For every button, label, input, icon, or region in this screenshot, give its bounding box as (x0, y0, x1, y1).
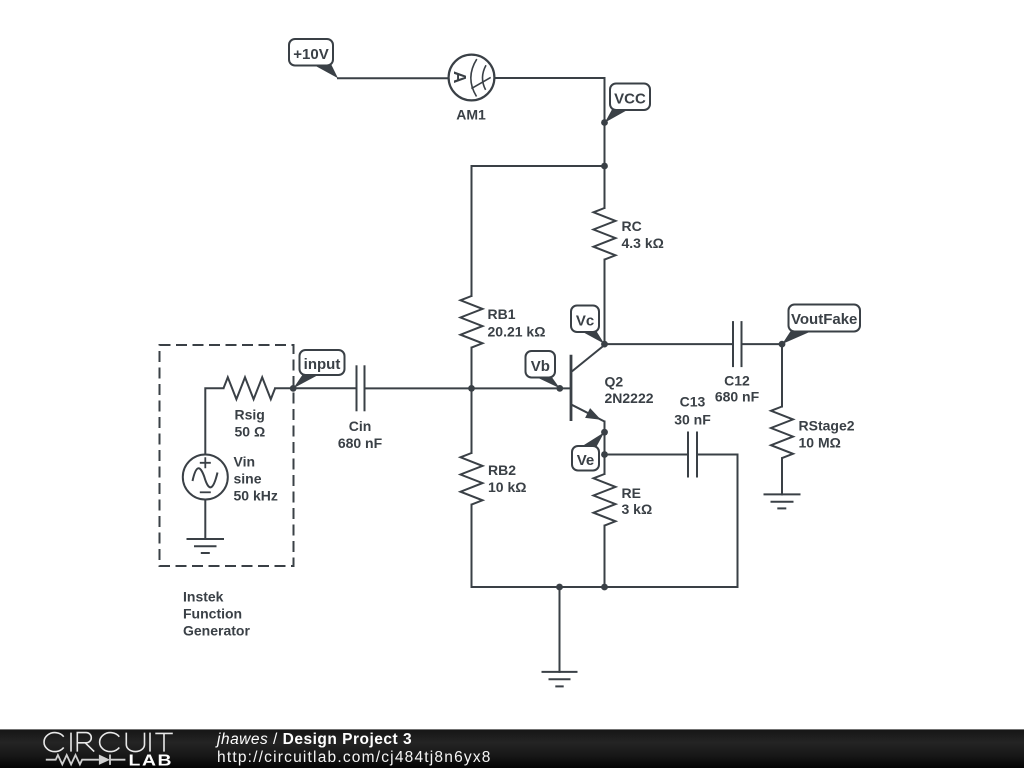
capacitor C13 (688, 432, 697, 478)
svg-text:4.3 kΩ: 4.3 kΩ (622, 235, 664, 251)
wire Ve node to C13 left plate (605, 454, 689, 456)
svg-text:680 nF: 680 nF (715, 389, 760, 405)
svg-text:30 nF: 30 nF (674, 412, 711, 428)
wire Vc node to C12 left plate (605, 343, 734, 345)
svg-text:RB1: RB1 (488, 306, 516, 322)
junction dot Vc node (601, 341, 608, 348)
svg-text:Generator: Generator (183, 623, 250, 639)
svg-text:Q2: Q2 (605, 374, 624, 390)
svg-text:3 kΩ: 3 kΩ (622, 501, 653, 517)
wire C12 right plate to VoutFake node (742, 343, 783, 345)
svg-text:C13: C13 (680, 394, 706, 410)
svg-text:Ve: Ve (577, 452, 595, 469)
wire input node to Cin left plate (275, 387, 356, 389)
resistor RE (594, 474, 616, 526)
wire +10V to ammeter (338, 77, 449, 79)
wire Rsig left to source top corner (205, 388, 223, 454)
ground (source) (187, 539, 225, 553)
svg-text:RStage2: RStage2 (799, 418, 855, 434)
wire C13 right plate to corner down to rail (697, 455, 738, 588)
flag Vc (571, 306, 604, 344)
wire VoutFake node down to RStage2 (781, 344, 783, 406)
svg-text:sine: sine (234, 471, 262, 487)
junction dot base node (468, 385, 475, 392)
bottom bar (0, 729, 1024, 768)
junction dot RE rail (601, 584, 608, 591)
ammeter AM1 (449, 55, 495, 101)
flag input (293, 350, 344, 388)
svg-text:+10V: +10V (293, 46, 328, 63)
junction dot Vb tap (556, 385, 563, 392)
junction dot emitter-C13 branch (601, 451, 608, 458)
junction dot VCC tap (601, 119, 608, 126)
capacitor C12 (733, 321, 742, 367)
svg-text:20.21 kΩ: 20.21 kΩ (488, 324, 546, 340)
svg-text:LAB: LAB (129, 751, 174, 768)
svg-text:Cin: Cin (349, 418, 372, 434)
svg-text:RC: RC (622, 218, 642, 234)
svg-text:AM1: AM1 (456, 107, 486, 123)
resistor RB1 (461, 296, 483, 348)
wire rail tap to center ground (559, 587, 561, 672)
flag VCC (605, 84, 650, 123)
svg-text:10 MΩ: 10 MΩ (799, 435, 841, 451)
junction dot rail ground tap (556, 584, 563, 591)
svg-text:Vin: Vin (234, 454, 256, 470)
flag +10V (289, 39, 338, 78)
svg-text:Instek: Instek (183, 589, 224, 605)
svg-text:VCC: VCC (614, 91, 646, 108)
ground (bottom center) (542, 672, 578, 687)
resistor Rsig (224, 377, 276, 399)
svg-text:Function: Function (183, 606, 242, 622)
wire base: Cin right plate to Q2 base (365, 387, 571, 389)
wire bottom ground rail (472, 586, 738, 588)
transistor Q2 (571, 345, 605, 422)
wire branch VCC rail to RB1 top (472, 166, 605, 296)
wire emitter vertical to RE top (604, 422, 606, 475)
junction dot input node (290, 385, 297, 392)
resistor RB2 (461, 453, 483, 505)
svg-text:http://circuitlab.com/cj484tj8: http://circuitlab.com/cj484tj8n6yx8 (217, 749, 492, 766)
junction dot VoutFake node (779, 341, 786, 348)
wire RB1 bottom through base node to RB2 top (471, 348, 473, 453)
capacitor Cin (357, 365, 365, 411)
wire source bottom to ground (204, 500, 206, 540)
svg-text:50 Ω: 50 Ω (235, 424, 266, 440)
svg-text:10 kΩ: 10 kΩ (488, 479, 526, 495)
flag VoutFake (782, 305, 860, 345)
svg-text:jhawes / Design Project 3: jhawes / Design Project 3 (215, 731, 412, 748)
wire RStage2 to ground (781, 458, 783, 494)
wire RB2 bottom to ground rail (471, 505, 473, 587)
svg-text:50 kHz: 50 kHz (234, 488, 278, 504)
svg-text:A: A (450, 71, 470, 84)
resistor RStage2 (771, 407, 793, 459)
ground (RStage2) (764, 494, 801, 508)
svg-text:2N2222: 2N2222 (605, 390, 654, 406)
svg-text:Vb: Vb (531, 358, 550, 375)
flag Ve (572, 432, 604, 470)
wire ammeter to VCC corner and down to RC (494, 78, 604, 208)
svg-text:Rsig: Rsig (235, 407, 265, 423)
dashed enclosure Instek function generator (160, 345, 294, 566)
svg-text:680 nF: 680 nF (338, 435, 383, 451)
svg-text:C12: C12 (724, 373, 750, 389)
svg-text:RE: RE (622, 485, 641, 501)
svg-text:VoutFake: VoutFake (791, 311, 857, 328)
source Vin (183, 455, 228, 500)
wire RE bottom to ground rail (604, 526, 606, 587)
junction dot Ve tap (601, 429, 608, 436)
logo CIRCUIT wordmark (44, 733, 173, 752)
junction dot RB1 branch (601, 163, 608, 170)
resistor RC (594, 208, 616, 260)
logo resistor-diode glyph (46, 755, 126, 765)
wire RC bottom to Vc node (604, 260, 606, 345)
svg-text:RB2: RB2 (488, 462, 516, 478)
svg-text:input: input (304, 356, 341, 373)
svg-text:Vc: Vc (576, 313, 594, 330)
flag Vb (526, 351, 560, 388)
